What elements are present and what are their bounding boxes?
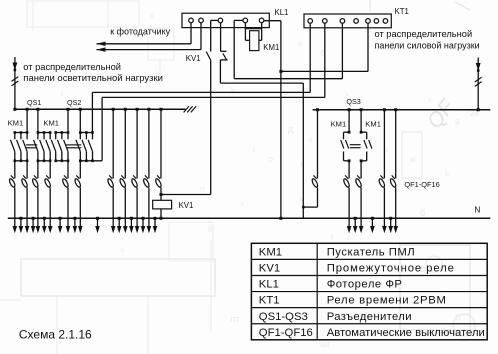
svg-text:QF1-QF16: QF1-QF16 [404, 180, 439, 189]
svg-text:Реле времени 2РВМ: Реле времени 2РВМ [327, 295, 447, 307]
svg-text:й: й [208, 225, 212, 234]
svg-text:KM1: KM1 [43, 119, 59, 128]
svg-text:QS1-QS3: QS1-QS3 [259, 311, 308, 323]
svg-text:QS2: QS2 [67, 98, 81, 107]
svg-text:QS3: QS3 [346, 97, 360, 106]
svg-text:от распределительной: от распределительной [375, 29, 473, 39]
svg-text:о: о [298, 39, 303, 48]
svg-text:QF1-QF16: QF1-QF16 [259, 327, 313, 339]
svg-text:х: х [385, 145, 389, 154]
svg-text:ч: ч [120, 245, 124, 254]
svg-text:Пускатель ПМЛ: Пускатель ПМЛ [327, 246, 416, 258]
svg-text:KM1: KM1 [331, 120, 347, 129]
svg-text:KV1: KV1 [259, 263, 280, 275]
svg-text:д: д [288, 124, 294, 134]
svg-text:х: х [240, 199, 244, 208]
svg-text:KV1: KV1 [179, 201, 194, 210]
svg-text:KT1: KT1 [259, 295, 280, 307]
svg-text:х: х [428, 95, 432, 104]
svg-text:KM1: KM1 [263, 43, 279, 52]
svg-text:лт: лт [230, 314, 239, 324]
svg-text:п: п [200, 184, 205, 194]
svg-text:Разъеденители: Разъеденители [327, 311, 412, 323]
svg-text:KM1: KM1 [8, 119, 24, 128]
svg-text:Автоматические выключатели: Автоматические выключатели [327, 327, 485, 339]
svg-text:б: б [420, 208, 425, 218]
svg-text:т: т [330, 233, 334, 242]
svg-text:Фотореле ФР: Фотореле ФР [327, 279, 403, 291]
svg-text:о: о [308, 135, 313, 144]
svg-text:х: х [150, 11, 154, 20]
svg-text:KM1: KM1 [259, 246, 282, 258]
svg-text:й: й [455, 118, 459, 127]
svg-text:QS1: QS1 [27, 98, 41, 107]
svg-text:KL1: KL1 [259, 279, 279, 291]
svg-text:KT1: KT1 [395, 7, 409, 16]
svg-text:м: м [410, 155, 416, 164]
svg-text:N: N [474, 205, 480, 214]
svg-text:панели осветительной нагрузки: панели осветительной нагрузки [23, 73, 163, 84]
svg-text:KV1: KV1 [186, 54, 201, 63]
svg-text:к фотодатчику: к фотодатчику [110, 26, 170, 36]
svg-text:панели силовой нагрузки: панели силовой нагрузки [375, 41, 480, 51]
svg-text:з: з [252, 145, 256, 154]
svg-text:Промежуточное реле: Промежуточное реле [327, 263, 455, 275]
svg-text:Схема 2.1.16: Схема 2.1.16 [19, 327, 92, 341]
svg-text:KM1: KM1 [365, 120, 381, 129]
svg-text:KL1: KL1 [275, 8, 289, 17]
svg-text:от распределительной: от распределительной [23, 62, 121, 72]
svg-text:о: о [268, 154, 273, 164]
svg-text:ь: ь [445, 169, 449, 178]
svg-text:з: з [60, 91, 63, 98]
